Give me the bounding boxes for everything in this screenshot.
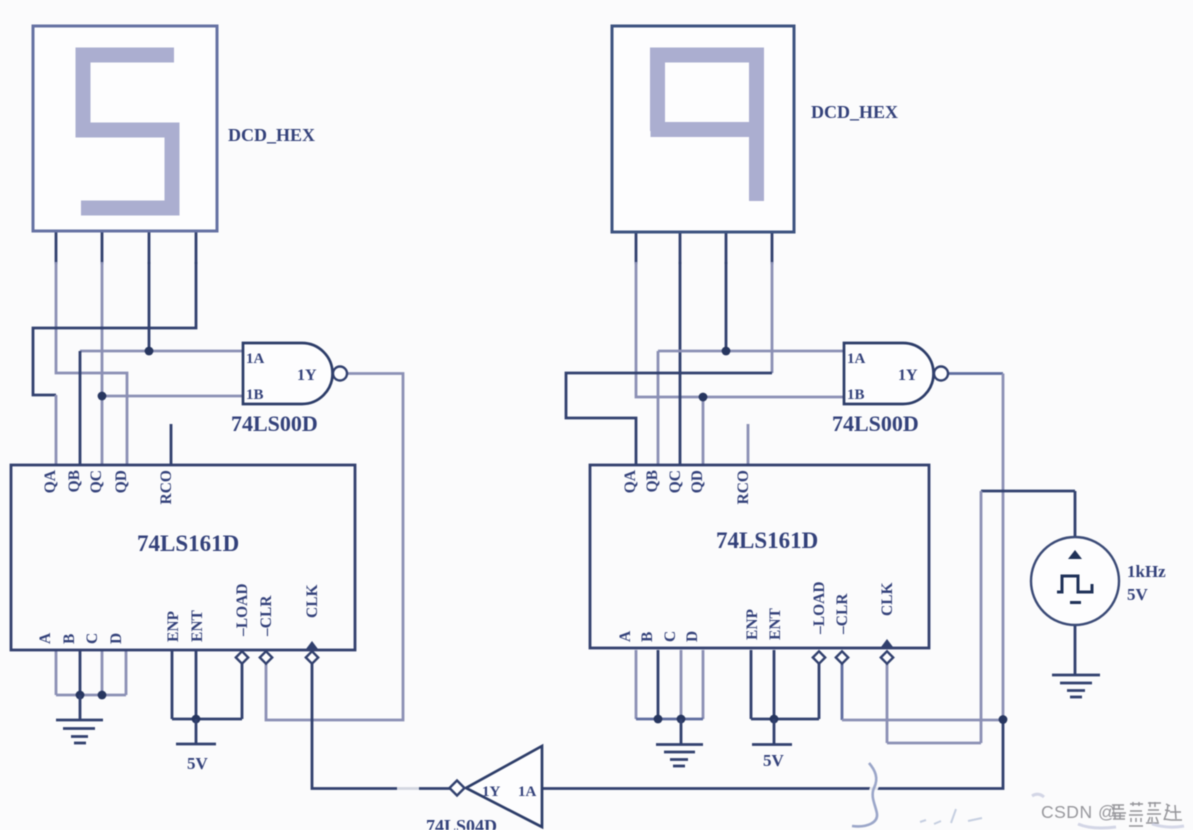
ground GND1 (left counter) xyxy=(56,695,103,743)
junction: ENT on 5V join xyxy=(192,715,201,724)
svg-text:1A: 1A xyxy=(246,351,265,367)
junction: pin3 on net 1A (right) xyxy=(722,347,731,356)
svg-text:1Y: 1Y xyxy=(297,367,317,384)
wire: U2 inputs A B C D to ground join xyxy=(636,650,703,719)
wire: U2 ~CLR to U4A output net xyxy=(842,663,1003,720)
svg-text:ENT: ENT xyxy=(767,607,784,640)
svg-text:QC: QC xyxy=(667,470,684,493)
wire: U7A output to U1 CLK xyxy=(312,663,450,789)
svg-text:RCO: RCO xyxy=(735,470,752,504)
junction: B on ground join (right) xyxy=(654,715,663,724)
svg-text:–LOAD: –LOAD xyxy=(234,583,251,637)
junction: pin3 on net 1A xyxy=(145,347,154,356)
wire: U1 ENP ENT ~LOAD to 5V join xyxy=(172,650,242,719)
wire: U5 pin3 down to net 1A xyxy=(148,262,151,351)
svg-text:QA: QA xyxy=(622,469,639,493)
power VCC1 5V (left) xyxy=(176,719,216,773)
wire: U5 display pin stubs xyxy=(56,231,196,264)
watermark CJK name glyph strokes xyxy=(1112,802,1182,826)
svg-text:QB: QB xyxy=(66,470,83,492)
svg-text:–CLR: –CLR xyxy=(258,595,275,637)
watermark faint smudges xyxy=(1032,794,1184,828)
counter U1 74LS161D (left) xyxy=(11,465,355,650)
wire: U1 inputs A B C D to ground join xyxy=(56,650,126,695)
pin bubble U2 CLK xyxy=(881,651,893,663)
wire: U6 pin2 to U2 QC xyxy=(679,262,682,465)
wire: U1 RCO stub xyxy=(170,424,173,465)
svg-text:QA: QA xyxy=(42,469,59,493)
svg-text:74LS04D: 74LS04D xyxy=(426,816,497,830)
junction: B on ground join xyxy=(76,691,85,700)
svg-text:ENP: ENP xyxy=(744,608,761,640)
wire: U6 pin4 to U2 QA xyxy=(566,262,772,465)
pin bubble U1 CLK xyxy=(306,651,318,663)
svg-text:–CLR: –CLR xyxy=(834,593,851,635)
svg-text:CLK: CLK xyxy=(879,582,896,616)
svg-text:DCD_HEX: DCD_HEX xyxy=(228,125,315,145)
NAND gate U3A 74LS00D (left) xyxy=(243,343,347,404)
pin bubble U2 ~CLR xyxy=(836,651,848,663)
watermark squiggle xyxy=(397,763,982,826)
svg-text:74LS161D: 74LS161D xyxy=(137,531,239,556)
svg-text:A: A xyxy=(37,632,54,644)
junction: C on ground join (right) xyxy=(677,715,686,724)
net 1B (left): QC wire to U3A input xyxy=(102,395,243,398)
power VCC2 5V (right) xyxy=(752,719,792,770)
clock source V1 1kHz 5V xyxy=(1031,537,1166,625)
svg-text:1Y: 1Y xyxy=(482,784,501,800)
svg-text:CSDN @: CSDN @ xyxy=(1041,802,1116,822)
net 1A (left): to U3A input, branch to U1 QB xyxy=(80,351,243,465)
svg-text:D: D xyxy=(684,631,701,642)
wire: U5 pin4 to U1 QA xyxy=(33,262,196,465)
wire: U3A output 1Y to U1 ~CLR xyxy=(266,374,403,721)
wire: U6 pin1 + net 1B to U4A input, branch U2 QD xyxy=(636,262,844,465)
pin bubble U1 ~CLR xyxy=(260,651,272,663)
junction: QD branch on net 1B (right) xyxy=(699,393,708,402)
svg-text:QD: QD xyxy=(689,470,706,493)
svg-text:D: D xyxy=(108,633,125,644)
junction: C on ground join xyxy=(98,691,107,700)
net 1A (right): to U4A input, branch to U2 QB xyxy=(658,351,844,465)
wire: clock V1 to U2 CLK xyxy=(887,491,1075,743)
svg-text:5V: 5V xyxy=(763,751,785,770)
svg-text:RCO: RCO xyxy=(158,470,175,504)
counter U2 74LS161D (right) xyxy=(590,465,929,648)
svg-text:74LS00D: 74LS00D xyxy=(832,411,919,436)
pin bubble U1 ~LOAD xyxy=(236,651,248,663)
svg-text:1B: 1B xyxy=(246,387,264,403)
svg-text:74LS00D: 74LS00D xyxy=(231,411,318,436)
wire: U5 pin1 to U1 QD xyxy=(56,262,127,465)
wire: U2 RCO stub xyxy=(747,424,750,465)
svg-text:5V: 5V xyxy=(1127,585,1149,604)
pin bubble U2 ~LOAD xyxy=(813,651,825,663)
svg-text:5V: 5V xyxy=(187,754,209,773)
svg-text:1B: 1B xyxy=(847,387,865,403)
svg-text:ENP: ENP xyxy=(165,610,182,642)
inverter U7A 74LS04D xyxy=(450,746,543,827)
svg-text:DCD_HEX: DCD_HEX xyxy=(811,102,898,122)
svg-text:A: A xyxy=(617,630,634,642)
svg-text:B: B xyxy=(61,634,78,644)
svg-text:CLK: CLK xyxy=(304,584,321,618)
svg-text:1A: 1A xyxy=(518,784,537,800)
svg-text:ENT: ENT xyxy=(189,609,206,642)
svg-text:C: C xyxy=(662,631,679,642)
svg-text:C: C xyxy=(84,633,101,644)
junction: ~CLR tap on U4A output net xyxy=(999,715,1008,724)
svg-text:1Y: 1Y xyxy=(898,367,918,384)
wire: U5 pin2 to U1 QC xyxy=(101,262,104,465)
svg-text:74LS161D: 74LS161D xyxy=(716,528,818,553)
junction: ENT on 5V join (right) xyxy=(770,715,779,724)
svg-text:–LOAD: –LOAD xyxy=(811,581,828,635)
junction: net 1B tap on QC wire xyxy=(98,392,107,401)
svg-text:QB: QB xyxy=(644,470,661,492)
svg-text:B: B xyxy=(639,632,656,642)
watermark CSDN @ text xyxy=(1041,802,1116,822)
svg-text:1A: 1A xyxy=(847,351,866,367)
display U5 DCD_HEX (left, digit 5) xyxy=(33,26,217,231)
ground GND3 (clock) xyxy=(1052,626,1100,697)
svg-text:1kHz: 1kHz xyxy=(1127,562,1166,581)
NAND gate U4A 74LS00D (right) xyxy=(844,343,948,404)
wire: U2 ENP ENT ~LOAD to 5V join xyxy=(751,650,819,719)
wire: U6 pin3 down to net 1A xyxy=(725,262,728,351)
display U6 DCD_HEX (right, digit 9) xyxy=(612,26,794,232)
ground GND2 (right counter) xyxy=(656,719,703,766)
wire: U4A output 1Y down to junction, then to U7A input xyxy=(542,374,1003,789)
wire: U6 display pin stubs xyxy=(636,232,772,264)
svg-text:QD: QD xyxy=(113,470,130,493)
svg-text:QC: QC xyxy=(88,470,105,493)
